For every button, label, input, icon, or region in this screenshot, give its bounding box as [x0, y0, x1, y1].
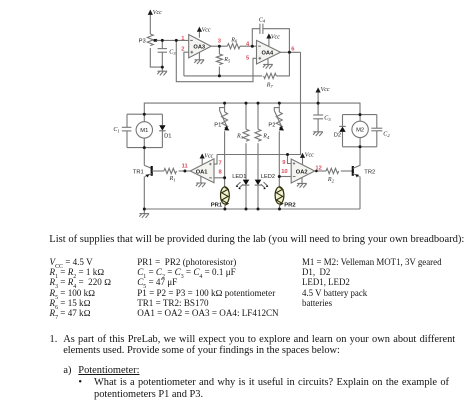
svg-text:R3: R3: [236, 134, 244, 140]
svg-text:M1: M1: [140, 128, 148, 134]
svg-text:PR2: PR2: [284, 202, 296, 208]
LED1: [236, 180, 250, 209]
capacitor C4 feedback loop: [252, 24, 289, 53]
junction OA1 pin8 / P1-PR1 node: [223, 176, 226, 179]
svg-text:Vcc: Vcc: [271, 35, 280, 41]
resistor R5: [216, 46, 222, 76]
motor M2: [352, 115, 368, 147]
junction R5 bottom on feedback line: [218, 74, 221, 77]
diode D1: [159, 114, 165, 147]
resistor R3 column: [243, 103, 249, 180]
junction M2 box bottom: [359, 145, 362, 148]
svg-text:LED1: LED1: [232, 174, 246, 180]
svg-text:P2: P2: [268, 122, 275, 128]
wire node: P3 wiper to OA3 pin1: [156, 39, 189, 41]
junction node 3: [218, 45, 221, 48]
Vcc OA3: [197, 27, 202, 38]
Vcc OA2: [300, 153, 305, 165]
svg-text:R6: R6: [230, 37, 238, 43]
item a label: [63, 365, 71, 377]
svg-text:1: 1: [181, 36, 185, 42]
capacitor C2: [371, 115, 382, 147]
svg-text:11: 11: [182, 163, 189, 169]
svg-text:OA3: OA3: [193, 44, 205, 50]
junction Vcc bus / R4 top: [257, 102, 260, 105]
junction Vcc bus / C5 top: [317, 102, 320, 105]
svg-text:10: 10: [281, 169, 287, 175]
Vcc arrow on rail: [316, 87, 321, 103]
junction P3 wiper node: [153, 39, 156, 42]
capacitor C5: [313, 103, 323, 132]
bullet marker: [78, 377, 82, 388]
junction C3 bottom / P3 leg: [161, 66, 164, 69]
svg-text:R2: R2: [327, 177, 335, 183]
ground bus bottom: [144, 208, 360, 210]
svg-text:C1: C1: [113, 127, 119, 133]
junction ground bus / PR1 bottom: [223, 208, 226, 211]
wire node 11 to OA1 output: [179, 170, 191, 172]
junction node 12: [315, 170, 318, 173]
junction dots: [143, 39, 362, 211]
wire pin10 stub: [279, 176, 291, 178]
supplies heading: [49, 234, 464, 246]
motor M2 box: [343, 115, 377, 147]
op-amp U OA4: [257, 40, 281, 64]
resistor R1: [164, 168, 177, 173]
svg-text:Vcc: Vcc: [202, 28, 211, 34]
ground under C5: [313, 132, 323, 136]
svg-text:OA1: OA1: [196, 170, 208, 176]
junction ground bus left / TR1 emitter: [143, 208, 146, 211]
wire OA1 pin7 to reference line: [214, 155, 217, 165]
junction ground bus / LED1 cathode: [245, 208, 248, 211]
wire P2 to PR2 column: [278, 131, 280, 187]
wire P1 to PR1 column: [224, 131, 226, 187]
junction M2 box top: [359, 113, 362, 116]
Vcc OA4: [266, 33, 271, 46]
wire OA3 pin2 feedback stub: [184, 52, 189, 76]
svg-text:5: 5: [246, 56, 250, 62]
wire OA3 output node 3: [211, 45, 227, 47]
wire node 4 to OA4: [240, 45, 257, 47]
diode D2: [339, 126, 345, 131]
svg-text:Vcc: Vcc: [305, 153, 314, 159]
ground OA1: [196, 176, 206, 187]
svg-text:3: 3: [218, 38, 222, 44]
junction Vcc bus / P1 top: [223, 102, 226, 105]
svg-text:PR1: PR1: [211, 203, 223, 209]
junction Vcc bus / P2 top: [278, 102, 281, 105]
potentiometer P3: [147, 34, 162, 67]
op-amp U OA2: [291, 159, 315, 183]
ground OA4: [263, 59, 273, 69]
item a potentiometer heading: [78, 365, 139, 377]
Vcc OA1: [200, 153, 205, 164]
capacitor C1: [122, 127, 132, 131]
motor M1: [136, 114, 152, 147]
svg-text:P3: P3: [139, 39, 146, 45]
svg-text:C2: C2: [383, 132, 390, 138]
wire OA1 pin8 stub: [214, 177, 225, 179]
wire node 6 drop to comparators: [217, 52, 301, 154]
LED2: [255, 180, 269, 209]
parts column 2: [137, 257, 278, 319]
wire pin9 drop: [288, 155, 292, 164]
junction ground bus / PR2 bottom: [278, 208, 281, 211]
svg-text:C3: C3: [169, 50, 176, 56]
svg-text:R1: R1: [169, 176, 176, 182]
transistor Q TR1: [144, 148, 151, 209]
wire R2 to TR2 base: [341, 170, 353, 172]
resistor R4 column: [255, 103, 261, 180]
red pin numbers: [181, 36, 322, 176]
svg-text:12: 12: [315, 166, 321, 172]
ground under C3: [157, 67, 167, 75]
svg-text:R7: R7: [266, 83, 274, 89]
Vcc rail bus: [144, 103, 360, 115]
svg-text:C5: C5: [324, 116, 331, 122]
svg-text:OA2: OA2: [296, 170, 308, 176]
ground symbol bottom left: [139, 209, 149, 218]
svg-text:Vcc: Vcc: [153, 10, 162, 16]
svg-text:D1: D1: [164, 134, 171, 140]
resistor R2: [326, 168, 339, 173]
svg-text:TR2: TR2: [364, 170, 375, 176]
bullet question: [94, 377, 449, 400]
junction node line to OA4 pin5 drop: [175, 39, 178, 42]
transistor Q TR2: [353, 147, 360, 209]
junction ground bus / LED2 cathode: [257, 208, 260, 211]
ground OA3: [194, 52, 204, 64]
potentiometer P1: [220, 103, 230, 130]
Vcc supply P3: [148, 10, 153, 35]
junction Vcc bus / R3 top: [245, 102, 248, 105]
ground OA2: [297, 177, 307, 187]
junction M1 box bottom: [143, 146, 146, 149]
svg-text:9: 9: [282, 160, 286, 166]
svg-text:R5: R5: [223, 57, 231, 63]
wire OA2 output node 12: [315, 170, 326, 172]
svg-text:M2: M2: [356, 128, 364, 134]
junction C3 top: [161, 39, 164, 42]
junction OA2 pin10 / P2-PR2 node: [278, 175, 281, 178]
resistor R7: [184, 52, 290, 78]
parts column 3: [302, 257, 442, 308]
svg-text:LED2: LED2: [261, 174, 275, 180]
svg-text:7: 7: [219, 160, 222, 166]
prelab item 1 number: [50, 334, 58, 346]
wire OA4 output node 6: [281, 51, 301, 53]
op-amp U OA1: [190, 159, 214, 183]
svg-text:C4: C4: [259, 17, 266, 23]
svg-text:P1: P1: [214, 122, 221, 128]
svg-text:Vcc: Vcc: [321, 87, 330, 93]
motor M1 box: [127, 114, 162, 147]
junction M1 box top: [143, 113, 146, 116]
capacitor C3: [158, 40, 167, 67]
junction reference line to OA2 pin9: [286, 153, 289, 156]
wire OA4 pin5 to node line: [176, 40, 256, 81]
wire TR1 base: [152, 170, 164, 172]
svg-text:Vcc: Vcc: [204, 153, 213, 159]
svg-text:R4: R4: [262, 134, 270, 140]
junction node 6: [288, 51, 291, 54]
svg-text:TR1: TR1: [133, 170, 144, 176]
resistor R6: [227, 44, 240, 49]
svg-text:8: 8: [219, 170, 223, 176]
potentiometer P2: [274, 103, 284, 130]
svg-text:D2: D2: [334, 133, 341, 139]
svg-text:OA4: OA4: [262, 51, 275, 57]
prelab item 1 text: [63, 334, 455, 357]
photoresistor PR2: [275, 187, 284, 209]
op-amp U OA3: [189, 35, 211, 58]
parts column 1: [50, 257, 112, 319]
junction node 4: [251, 45, 254, 48]
photoresistor PR1: [221, 187, 230, 209]
svg-text:2: 2: [181, 46, 184, 52]
junction node 11: [183, 170, 186, 173]
